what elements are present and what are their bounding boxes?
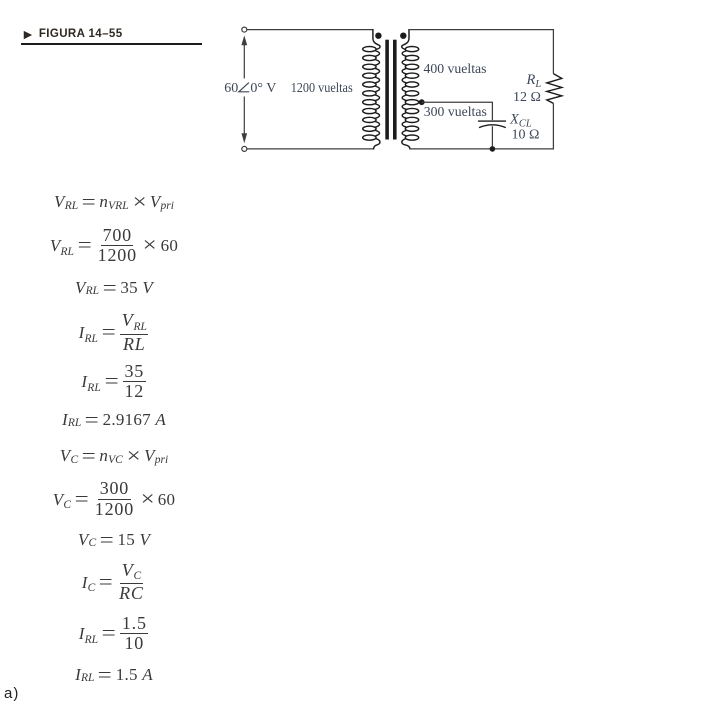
source arrowhead down — [242, 133, 248, 143]
polarity dot primary — [375, 33, 381, 39]
label a) — [4, 685, 19, 702]
transformer core bar right — [393, 40, 397, 140]
label 60 angle 0 V — [224, 81, 276, 96]
capacitor XCL curved plate — [479, 125, 506, 128]
svg-text:400 vueltas: 400 vueltas — [424, 62, 487, 77]
svg-text:0° V: 0° V — [250, 81, 276, 96]
wire capacitor to bottom — [491, 126, 493, 149]
svg-text:12 Ω: 12 Ω — [513, 90, 541, 105]
source arrowhead up — [241, 35, 247, 45]
terminal bottom-left — [242, 146, 247, 151]
transformer secondary winding — [402, 29, 419, 150]
wire secondary bottom — [410, 103, 553, 148]
svg-text:300 vueltas: 300 vueltas — [424, 105, 487, 120]
wire tap to capacitor — [422, 102, 493, 120]
wire secondary top to RL — [409, 30, 553, 74]
resistor RL — [547, 74, 562, 104]
node bottom junction — [490, 146, 496, 152]
source Vs arrow line — [243, 41, 245, 137]
transformer primary winding 1200 vueltas — [363, 29, 380, 150]
node tap 300 vueltas — [419, 99, 425, 105]
caption underline — [21, 43, 202, 45]
terminal top-left — [242, 27, 247, 32]
wire — [247, 29, 373, 31]
transformer core bar left — [385, 40, 389, 140]
wire — [247, 148, 374, 150]
svg-text:10 Ω: 10 Ω — [512, 128, 540, 143]
svg-text:60: 60 — [224, 81, 238, 96]
svg-text:RL: RL — [526, 72, 542, 90]
polarity dot secondary — [400, 33, 406, 39]
capacitor XCL top plate — [478, 120, 506, 122]
figure caption FIGURA 14-55 — [21, 26, 123, 42]
svg-text:1200 vueltas: 1200 vueltas — [291, 81, 353, 96]
